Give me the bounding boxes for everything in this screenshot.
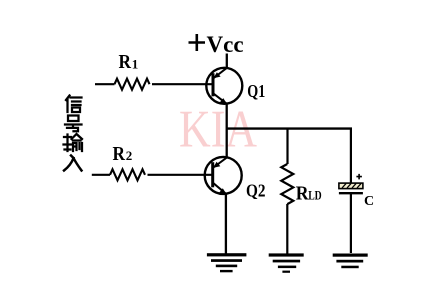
wire R2 left lead xyxy=(92,174,110,176)
Q1 circle xyxy=(206,68,242,104)
wire Q2 emitter to ground xyxy=(225,194,227,254)
resistor R1 zigzag xyxy=(115,79,150,90)
svg-text:2: 2 xyxy=(126,148,133,163)
svg-text:Vcc: Vcc xyxy=(207,32,244,57)
label 信号输入 (signal input, drawn as paths) xyxy=(64,96,83,171)
ground under capacitor xyxy=(333,254,368,269)
svg-text:C: C xyxy=(364,194,374,209)
wire output node horizontal xyxy=(227,127,352,129)
ground under Q2 xyxy=(207,253,247,272)
power +Vcc xyxy=(189,34,206,51)
Q2 emitter arrow xyxy=(219,188,226,194)
resistor R2 xyxy=(92,169,212,180)
svg-text:R: R xyxy=(119,52,132,73)
capacitor C bottom plate xyxy=(339,192,363,194)
resistor R1 xyxy=(95,79,212,90)
transistor Q2 xyxy=(205,157,242,194)
svg-text:R: R xyxy=(113,144,126,165)
信 xyxy=(66,96,70,113)
Q1 base bar xyxy=(212,73,215,96)
Q1 collector arrow xyxy=(213,72,220,78)
Q1 emitter line xyxy=(214,94,227,104)
wire Vcc to Q1 collector xyxy=(226,54,228,69)
wire R1 right lead to Q1 base xyxy=(152,83,212,85)
svg-text:Q1: Q1 xyxy=(247,81,265,101)
号 xyxy=(68,116,79,122)
wire RLD top lead xyxy=(286,129,288,164)
Q2 emitter line xyxy=(213,183,225,193)
wire Q1 emitter to Q2 collector (node out) xyxy=(226,104,228,158)
resistor R2 zigzag xyxy=(110,169,145,180)
svg-text:1: 1 xyxy=(132,56,139,71)
输 xyxy=(64,135,72,152)
ground under RLD xyxy=(269,253,304,272)
svg-text:R: R xyxy=(296,183,309,205)
wire R1 left lead xyxy=(95,83,115,85)
Q2 circle xyxy=(205,157,242,194)
入 xyxy=(64,156,82,171)
capacitor C plus sign xyxy=(356,174,362,180)
Q2 base bar xyxy=(211,162,214,187)
wire RLD bottom lead xyxy=(286,204,288,254)
wire capacitor bottom lead xyxy=(350,193,352,253)
wire R2 right lead to Q2 base xyxy=(148,174,213,176)
Q2 collector arrow xyxy=(213,162,220,168)
transistor Q1 xyxy=(206,68,242,104)
Q1 emitter arrow xyxy=(220,98,227,104)
Q1 collector line xyxy=(214,68,227,78)
capacitor C top plate (hatched) xyxy=(339,183,363,189)
resistor RLD zigzag xyxy=(281,164,293,204)
svg-text:Q2: Q2 xyxy=(246,181,266,201)
svg-text:LD: LD xyxy=(308,188,322,203)
wire capacitor top lead xyxy=(350,129,352,183)
Q2 collector line xyxy=(213,157,227,168)
